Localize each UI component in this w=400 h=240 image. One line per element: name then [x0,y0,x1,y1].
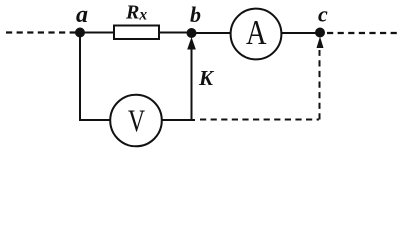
wire dashed left of node a [6,31,76,33]
wire resistor to node b [159,32,192,34]
wire node a down [79,33,81,121]
node a [75,28,85,38]
node b [187,28,197,38]
arrowhead to node c [317,37,324,49]
wire dashed vertical to node c [319,50,321,120]
svg-text:c: c [318,2,328,27]
wire bottom left to voltmeter [79,119,111,121]
wire node b to ammeter [192,32,231,34]
wire voltmeter to switch junction [162,119,195,121]
voltmeter U2 circle [110,95,162,147]
svg-text:V: V [128,102,145,138]
ammeter U1 circle [231,9,282,60]
svg-text:K: K [198,66,215,90]
wire dashed bottom [200,119,319,121]
svg-text:A: A [246,14,267,52]
svg-text:b: b [190,2,201,27]
node c [315,28,325,38]
wire node a to resistor [78,32,114,34]
wire ammeter to node c [281,32,320,34]
arrowhead K to node b [187,37,196,50]
wire K vertical with arrow to node b [191,46,193,120]
svg-text:a: a [76,2,88,28]
resistor Rx [114,26,159,40]
wire dashed right of node c [327,32,397,34]
